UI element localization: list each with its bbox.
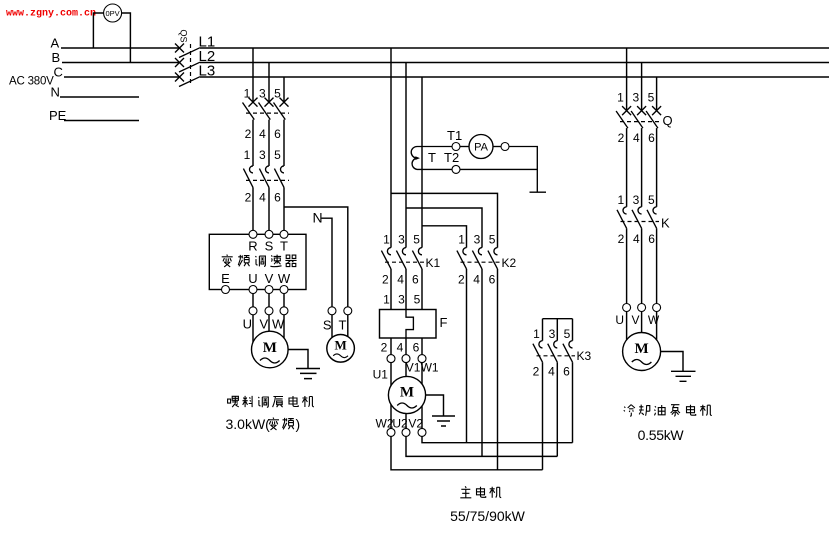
ground (motor M3) — [432, 416, 455, 426]
svg-text:0PV: 0PV — [106, 9, 120, 18]
terminal T2 — [452, 165, 460, 173]
wire W1 to motor M3 — [421, 363, 423, 384]
wire QF1 to KM1 pole1 — [252, 120, 254, 166]
svg-text:4: 4 — [397, 273, 404, 287]
svg-text:K: K — [661, 216, 670, 231]
breaker QF1 pin labels 1 3 5 — [244, 87, 282, 101]
motor M3 terminal W1 — [418, 355, 426, 363]
svg-text:3: 3 — [633, 193, 640, 207]
svg-text:6: 6 — [413, 340, 420, 354]
motor M3 terminal U1 — [387, 355, 395, 363]
contactor KM1 linkage (dashed) — [246, 179, 289, 181]
contactor K2 pole 1 — [457, 248, 467, 269]
fan motor terminal S — [328, 307, 336, 315]
wire star bar to K3 pole2 — [556, 319, 558, 341]
switch QS pole 1 contact — [175, 44, 200, 58]
current transformer T — [411, 147, 417, 170]
svg-text:N: N — [313, 210, 323, 226]
svg-text:T: T — [280, 239, 288, 254]
contactor KM1 pole 2 — [259, 166, 269, 188]
breaker Q pin labels 2 4 6 — [618, 131, 656, 145]
wire motor M1 to ground — [288, 350, 308, 369]
switch QS pole 3 contact — [175, 73, 200, 87]
wire bus phase C — [64, 76, 829, 78]
wire Q to K pole2 — [641, 128, 643, 207]
svg-text:2: 2 — [382, 273, 389, 287]
svg-text:M: M — [263, 340, 277, 356]
contactor K2 pin labels 2 4 6 — [458, 273, 496, 287]
thermal relay F heater element — [406, 310, 413, 339]
inverter terminal S — [265, 230, 273, 238]
motor M1 terminal V — [265, 307, 273, 315]
svg-text:1: 1 — [533, 327, 540, 341]
current transformer arrow — [415, 156, 420, 160]
wire PA loop to ground — [509, 147, 537, 193]
contactor K pole 3 — [647, 207, 657, 229]
wire motor M3 bottom to W2 — [390, 405, 392, 429]
svg-text:L3: L3 — [199, 63, 216, 80]
contactor K pole 1 — [617, 207, 627, 229]
caption 主电机 — [460, 486, 501, 498]
motor M3 terminal V2 — [418, 428, 426, 436]
svg-text:6: 6 — [274, 127, 281, 141]
breaker Q pin labels 1 3 5 — [617, 90, 655, 104]
svg-text:U1: U1 — [373, 368, 389, 382]
svg-text:R: R — [248, 239, 257, 254]
svg-text:2: 2 — [381, 340, 388, 354]
wire terminal T to fan motor — [347, 315, 349, 337]
wire PE — [64, 120, 139, 122]
svg-text:AC 380V: AC 380V — [9, 76, 54, 88]
wire drop phase C to pump branch — [656, 77, 658, 111]
breaker Q pole 3 — [646, 106, 661, 128]
svg-text:N: N — [51, 85, 60, 100]
contactor K1 linkage (dashed) — [385, 261, 424, 263]
wire drop phase A to pump branch — [626, 48, 628, 111]
wire KM1 to inverter S — [268, 187, 270, 230]
svg-text:2: 2 — [245, 191, 252, 205]
svg-text:1: 1 — [617, 90, 624, 104]
relay F pin labels 1 3 5 — [383, 292, 421, 306]
ammeter PA — [469, 135, 493, 159]
fan motor M2 — [327, 335, 355, 363]
ground (motor M1) — [296, 369, 320, 379]
svg-text:C: C — [54, 65, 63, 80]
wire rail 1 (V2 net) — [422, 436, 573, 442]
svg-text:6: 6 — [274, 191, 281, 205]
wire K2 pole2 to rail 2 — [481, 269, 483, 457]
motor M3 terminal W2 — [387, 428, 395, 436]
svg-text:5: 5 — [648, 193, 655, 207]
breaker QF1 pin labels 2 4 6 — [245, 127, 282, 141]
svg-text:S: S — [265, 239, 274, 254]
svg-text:55/75/90kW: 55/75/90kW — [450, 508, 525, 524]
wire QF1 to KM1 pole3 — [283, 120, 285, 166]
svg-text:F: F — [440, 315, 448, 330]
svg-text:W: W — [648, 313, 660, 327]
wire Q to K pole1 — [626, 128, 628, 207]
wire branch phase B to K2 — [406, 208, 482, 248]
svg-text:4: 4 — [633, 131, 640, 145]
contactor K3 pin labels 2 4 6 — [533, 365, 571, 379]
contactor K3 pole 2 — [548, 341, 558, 363]
wire drop phase A to main branch — [390, 48, 392, 248]
wire star bar to K3 pole1 — [542, 319, 544, 341]
svg-text:6: 6 — [648, 131, 655, 145]
svg-text:4: 4 — [259, 127, 266, 141]
wire drop phase B to main branch — [405, 63, 407, 248]
wire N to fan motor — [322, 218, 333, 306]
breaker Q linkage (dashed) — [620, 121, 659, 123]
wire T2 return — [460, 168, 537, 170]
svg-text:M: M — [334, 338, 346, 353]
contactor K pin labels 2 4 6 — [618, 232, 656, 246]
svg-text:2: 2 — [458, 273, 465, 287]
wire drop phase C to main branch — [421, 77, 423, 248]
svg-text:6: 6 — [412, 273, 419, 287]
wire terminal U to pump motor — [626, 312, 628, 340]
svg-text:K3: K3 — [577, 349, 592, 363]
contactor KM1 pin labels 1 3 5 — [244, 148, 282, 162]
svg-text:5: 5 — [414, 292, 421, 306]
wire terminal W to pump motor — [656, 312, 658, 340]
svg-text:2: 2 — [533, 365, 540, 379]
wire K to terminal V — [641, 228, 643, 303]
svg-text:6: 6 — [489, 273, 496, 287]
breaker QF1 pole 2 — [259, 98, 274, 120]
inverter terminal T — [280, 230, 288, 238]
motor M1 terminal W — [280, 307, 288, 315]
wire PA to terminal — [493, 146, 501, 148]
svg-text:2: 2 — [245, 127, 252, 141]
wire drop phase B to feeder branch — [268, 63, 270, 103]
svg-text:V1: V1 — [406, 361, 421, 375]
wire K1 to relay F pole3 — [421, 269, 423, 310]
inverter terminal R — [249, 230, 257, 238]
svg-text:V: V — [259, 317, 268, 332]
svg-text:T: T — [339, 318, 347, 333]
svg-text:V: V — [265, 271, 274, 286]
svg-text:PA: PA — [474, 142, 489, 154]
switch QS linkage (dashed) — [190, 44, 192, 84]
wire terminal U to motor M1 — [252, 315, 254, 343]
inverter U1 box 变频调速器 — [209, 234, 306, 289]
breaker QF1 pole 1 — [243, 98, 258, 120]
inverter terminal W — [280, 286, 288, 294]
wire motor M3 to ground — [426, 395, 444, 416]
wire K3 pole1 to rail 3 — [542, 362, 544, 470]
wire Q to K pole3 — [656, 128, 658, 207]
wire terminal W to motor M1 — [283, 315, 285, 344]
wire F to terminal U1 — [390, 338, 392, 355]
svg-text:3: 3 — [398, 232, 405, 246]
wire F to terminal V1 — [405, 338, 407, 355]
pump motor terminal W — [653, 304, 661, 312]
contactor K pole 2 — [632, 207, 642, 229]
svg-text:1: 1 — [383, 232, 390, 246]
svg-text:W: W — [272, 317, 285, 332]
wire star bar to K3 pole3 — [572, 319, 574, 341]
svg-text:T: T — [428, 150, 436, 165]
wire branch phase C to K2 — [422, 226, 467, 248]
caption 冷却油泵电机 — [624, 405, 712, 417]
svg-text:3: 3 — [398, 292, 405, 306]
wire K1 to relay F pole2 — [405, 269, 407, 310]
breaker Q pole 2 — [631, 106, 646, 128]
wire neutral N — [60, 96, 139, 98]
svg-text:T1: T1 — [447, 128, 462, 143]
svg-text:3: 3 — [259, 148, 266, 162]
svg-text:1: 1 — [458, 232, 465, 246]
svg-text:1: 1 — [617, 193, 624, 207]
contactor K3 pole 3 — [563, 341, 573, 363]
svg-text:1: 1 — [244, 148, 251, 162]
wire terminal S to fan motor — [331, 315, 333, 338]
contactor KM1 pole 1 — [243, 166, 253, 188]
wire terminal V to pump motor — [641, 312, 643, 333]
svg-text:4: 4 — [548, 365, 555, 379]
svg-text:E: E — [221, 271, 230, 286]
contactor K2 linkage (dashed) — [461, 261, 500, 263]
motor M1 terminal U — [249, 307, 257, 315]
wire drop phase B to pump branch — [641, 63, 643, 111]
contactor K2 pole 2 — [472, 248, 482, 269]
wire KM1 to inverter R — [252, 187, 254, 230]
wire K to terminal W — [656, 228, 658, 303]
ground (PA loop) — [530, 191, 547, 193]
wire CT secondary lead T1 — [417, 146, 452, 148]
motor M1 (feeder motor) — [251, 331, 288, 368]
inverter terminal E — [222, 286, 230, 294]
svg-text:W: W — [278, 271, 291, 286]
svg-text:V: V — [631, 313, 639, 327]
wire branch phase T to fan motor — [284, 207, 348, 307]
motor M3 (main motor) — [388, 376, 425, 413]
wire motor M3 bottom to V2 — [421, 406, 423, 428]
ground (pump motor) — [671, 371, 696, 381]
wire CT secondary lead T2 — [417, 168, 452, 170]
svg-text:5: 5 — [413, 232, 420, 246]
svg-text:www.zgny.com.cn: www.zgny.com.cn — [6, 9, 96, 20]
svg-text:S: S — [323, 318, 332, 333]
wire U1 to motor M3 — [390, 363, 392, 386]
wire K to terminal U — [626, 228, 628, 303]
wire K1 to relay F pole1 — [390, 269, 392, 310]
svg-text:6: 6 — [563, 365, 570, 379]
contactor K linkage (dashed) — [621, 221, 660, 223]
svg-text:2: 2 — [618, 232, 625, 246]
contactor K3 pole 1 — [533, 341, 543, 363]
wire K2 pole3 to rail 3 — [497, 269, 499, 470]
wire terminal V to motor M1 — [268, 315, 270, 332]
wire rail 2 (U2 net) — [406, 436, 557, 456]
contactor K1 pole 2 — [396, 248, 406, 269]
wire bus phase A — [61, 47, 829, 49]
svg-text:4: 4 — [633, 232, 640, 246]
contactor K1 pin labels 2 4 6 — [382, 273, 419, 287]
svg-text:K2: K2 — [502, 256, 517, 270]
contactor K1 pole 3 — [412, 248, 422, 269]
wire K3 pole3 to rail 1 — [572, 362, 574, 443]
pump motor terminal U — [623, 304, 631, 312]
breaker Q pole 1 — [616, 106, 631, 128]
contactor KM1 pin labels 2 4 6 — [245, 191, 282, 205]
breaker QF1 linkage (dashed) — [246, 112, 289, 114]
svg-text:3: 3 — [549, 327, 556, 341]
svg-text:K1: K1 — [426, 256, 441, 270]
svg-text:5: 5 — [648, 90, 655, 104]
svg-text:W1: W1 — [421, 361, 439, 375]
svg-text:3.0kW(: 3.0kW( — [226, 416, 271, 432]
contactor K3 star bar — [543, 318, 573, 320]
svg-text:QS: QS — [179, 30, 189, 43]
wire pump motor to ground — [661, 352, 683, 372]
wire PV left lead to phase A — [93, 13, 103, 48]
inverter terminal V — [265, 286, 273, 294]
switch QS pole 2 contact — [175, 58, 200, 72]
wire drop phase C to feeder branch — [283, 77, 285, 102]
terminal (PA output) — [501, 143, 509, 151]
wire QF1 to KM1 pole2 — [268, 120, 270, 166]
voltmeter PV — [104, 4, 122, 22]
wire inverter W to motor terminal — [283, 294, 285, 307]
contactor K3 pin labels 1 3 5 — [533, 327, 571, 341]
wire drop phase A to feeder branch — [252, 48, 254, 102]
svg-text:U: U — [248, 271, 257, 286]
svg-text:5: 5 — [274, 148, 281, 162]
relay F pin labels 2 4 6 — [381, 340, 420, 354]
wire K2 pole1 to rail 1 — [466, 269, 468, 443]
wire T1 to ammeter PA — [460, 146, 469, 148]
wire inverter V to motor terminal — [268, 294, 270, 307]
svg-text:6: 6 — [648, 232, 655, 246]
svg-text:4: 4 — [259, 191, 266, 205]
svg-text:B: B — [52, 50, 61, 65]
svg-text:Q: Q — [663, 113, 673, 128]
contactor K2 pole 3 — [488, 248, 498, 269]
contactor K1 pin labels 1 3 5 — [383, 232, 420, 246]
wire F to terminal W1 — [421, 338, 423, 355]
svg-text:U: U — [243, 317, 252, 332]
pump motor terminal V — [638, 304, 646, 312]
svg-text:M: M — [400, 385, 414, 401]
svg-text:0.55kW: 0.55kW — [638, 427, 685, 443]
wire PV right lead to phase B — [122, 13, 131, 63]
wire K3 pole2 to rail 2 — [556, 362, 558, 456]
inverter terminal U — [249, 286, 257, 294]
svg-text:1: 1 — [383, 292, 390, 306]
fan motor terminal T — [344, 307, 352, 315]
contactor K pin labels 1 3 5 — [617, 193, 655, 207]
motor M3 terminal V1 — [402, 355, 410, 363]
svg-text:4: 4 — [397, 340, 404, 354]
svg-text:5: 5 — [564, 327, 571, 341]
svg-text:4: 4 — [473, 273, 480, 287]
svg-text:3: 3 — [474, 232, 481, 246]
svg-text:A: A — [51, 36, 60, 51]
pump motor M4 — [623, 333, 661, 371]
wire KM1 to inverter T — [283, 187, 285, 230]
caption 喂料调质电机 — [228, 396, 314, 407]
svg-text:M: M — [635, 341, 649, 357]
contactor K2 pin labels 1 3 5 — [458, 232, 496, 246]
wire inverter U to motor terminal — [252, 294, 254, 307]
caption 3.0kW(变频) — [226, 416, 301, 432]
wire branch phase A to K2 — [391, 193, 498, 247]
wire rail 3 (W2 net) — [391, 436, 543, 469]
contactor K1 pole 1 — [381, 248, 391, 269]
svg-text:3: 3 — [632, 90, 639, 104]
wire bus phase B — [62, 62, 829, 64]
terminal T1 — [452, 143, 460, 151]
inverter name text 变频调速器 — [222, 255, 297, 267]
motor M3 terminal U2 — [402, 428, 410, 436]
contactor K3 linkage (dashed) — [537, 355, 576, 357]
svg-text:): ) — [296, 416, 301, 432]
thermal relay F box — [380, 310, 437, 339]
wire motor M3 bottom to U2 — [405, 414, 407, 429]
svg-text:U: U — [615, 313, 624, 327]
svg-text:2: 2 — [618, 131, 625, 145]
contactor KM1 pole 3 — [274, 166, 284, 188]
svg-text:5: 5 — [489, 232, 496, 246]
wire V1 to motor M3 — [405, 363, 407, 377]
svg-text:T2: T2 — [444, 150, 459, 165]
breaker QF1 pole 3 — [274, 98, 289, 120]
